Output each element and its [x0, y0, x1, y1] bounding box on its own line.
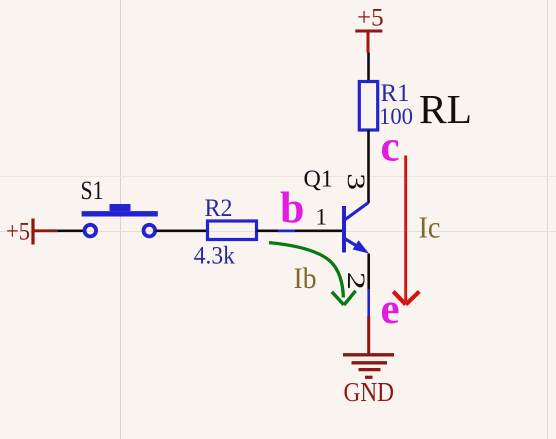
- svg-text:b: b: [280, 184, 304, 233]
- wire: +5 to R1: [367, 53, 370, 83]
- wire: S1 to R2: [156, 230, 208, 233]
- wire: R1 to collector: [367, 130, 370, 203]
- transistor Q1: [344, 203, 369, 254]
- grid line vertical: [120, 0, 122, 439]
- wire: +5 to S1: [57, 230, 84, 233]
- wire: blue segment: [367, 289, 370, 316]
- resistor R1: [359, 82, 377, 131]
- svg-text:RL: RL: [419, 86, 472, 132]
- svg-text:+5: +5: [357, 5, 384, 32]
- switch S1: [82, 204, 158, 236]
- svg-text:2: 2: [342, 272, 370, 290]
- power +5 left: [6, 219, 57, 246]
- svg-text:1: 1: [316, 205, 328, 230]
- svg-text:Ic: Ic: [419, 210, 441, 245]
- svg-text:c: c: [381, 124, 400, 171]
- grid line horizontal: [0, 176, 556, 178]
- wire: R2 to base: [257, 230, 343, 233]
- grid line horizontal: [0, 231, 556, 233]
- svg-text:R2: R2: [205, 195, 233, 222]
- svg-text:4.3k: 4.3k: [194, 243, 235, 270]
- svg-text:Q1: Q1: [304, 167, 333, 193]
- svg-text:S1: S1: [81, 176, 104, 205]
- power +5 top: [355, 5, 383, 53]
- grid line vertical: [547, 0, 549, 439]
- resistor R2: [208, 221, 257, 240]
- current arrow Ic: [393, 156, 419, 305]
- ground: [343, 355, 394, 378]
- wire: to ground: [367, 316, 370, 354]
- svg-text:Ib: Ib: [294, 262, 317, 295]
- wire: blue dash on base wire: [278, 230, 295, 233]
- svg-text:R1: R1: [381, 80, 410, 107]
- svg-text:+5: +5: [6, 219, 30, 246]
- svg-text:3: 3: [342, 173, 369, 190]
- wire: emitter down black: [367, 254, 370, 290]
- svg-text:GND: GND: [344, 377, 395, 407]
- current arrow Ib: [269, 243, 356, 305]
